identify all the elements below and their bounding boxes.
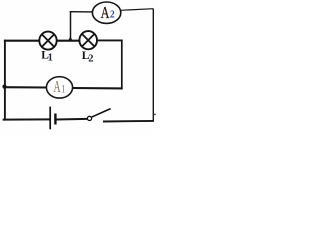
wire left vertical [4, 40, 6, 120]
label A2 [101, 4, 115, 22]
switch pivot [87, 116, 91, 120]
battery short plate [54, 114, 56, 125]
wire top row left segment [4, 40, 40, 42]
wire inner right vertical down to A1 row [121, 40, 123, 89]
switch blade [91, 109, 110, 118]
svg-text:A: A [53, 79, 60, 97]
ammeter A1 [46, 77, 72, 98]
svg-text:1: 1 [61, 83, 66, 95]
wire A2 right to top-right corner [121, 9, 154, 11]
lamp L1 [39, 32, 56, 50]
wire battery to switch [57, 118, 88, 121]
wire A2 branch horizontal to ammeter [70, 11, 93, 13]
wire A1 row right segment [73, 87, 123, 90]
wire bottom row left segment [3, 118, 50, 120]
label A1 [53, 79, 65, 97]
svg-text:1: 1 [48, 53, 53, 64]
label L2 [82, 50, 94, 65]
artifact tick right side [153, 113, 155, 115]
wire between L1 and L2 [57, 40, 80, 42]
svg-text:A: A [101, 4, 110, 22]
ammeter A2 [92, 2, 120, 23]
wire A2 branch vertical [70, 11, 72, 41]
wire A1 row left segment [5, 86, 47, 88]
svg-text:2: 2 [110, 9, 115, 21]
wire L2 right to inner corner [97, 39, 123, 41]
node junction dot on left wire at A1 row [2, 85, 6, 89]
svg-text:2: 2 [88, 54, 93, 65]
lamp L2 [79, 31, 97, 49]
wire right outer vertical [152, 9, 154, 122]
node junction dot between L1 and L2 [68, 36, 73, 41]
wire bottom row right segment [103, 120, 154, 123]
label L1 [41, 49, 53, 63]
battery long plate [49, 107, 51, 130]
